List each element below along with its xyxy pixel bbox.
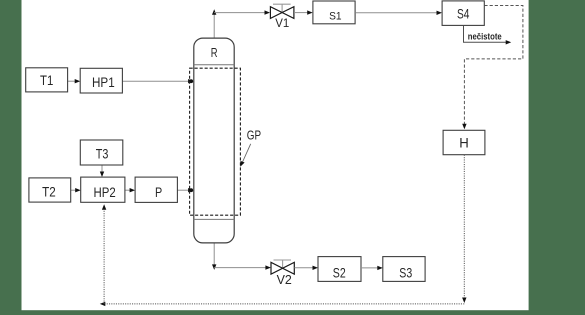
GP pointer line [240,144,250,167]
svg-text:S2: S2 [333,265,346,281]
box T2 [29,178,71,202]
box S4 [442,1,484,26]
box S1 [313,1,355,24]
wire HP1 to column R [122,79,193,83]
wire S4 impurities outlet [464,26,512,45]
box S3 [383,257,425,282]
wire V1 to S1 [294,10,313,14]
wire V2 to S2 [294,266,318,270]
svg-text:S3: S3 [399,265,412,281]
wire HP2 to P [125,188,135,192]
box HP1 [80,68,122,93]
box P [135,177,177,202]
green background bottom bar [0,310,585,315]
svg-text:V2: V2 [277,272,292,287]
svg-text:GP: GP [247,128,261,142]
wire S2 to S3 [361,266,383,270]
svg-text:T2: T2 [42,183,56,199]
wire T1 to HP1 [68,79,81,83]
valve V2 [271,260,294,274]
green background left bar [0,0,22,315]
dotted recycle up to HP2 [102,204,106,304]
box H [443,130,485,154]
valve V1 [270,4,294,18]
svg-text:S4: S4 [457,6,470,22]
svg-text:H: H [459,136,469,151]
svg-text:R: R [211,46,218,60]
column R vessel [194,38,234,243]
wire T3 to HP2 [100,165,104,177]
svg-text:S1: S1 [329,10,342,22]
svg-text:HP1: HP1 [92,74,115,90]
svg-text:HP2: HP2 [94,184,116,200]
svg-text:T1: T1 [40,72,53,88]
dotted recycle H down to bottom [462,155,466,303]
svg-text:T3: T3 [96,145,109,161]
wire column R bottom outlet to V2 [212,243,271,270]
box HP2 [81,177,125,202]
box S2 [318,257,361,282]
wire T2 to HP2 [71,188,81,192]
green background right bar [529,0,585,315]
wire P to column R [177,188,193,192]
dotted recycle bottom horizontal [100,302,465,306]
wire column R top outlet to V1 [212,9,270,38]
box T3 [80,140,123,165]
svg-text:V1: V1 [275,18,289,30]
svg-text:nečistote: nečistote [468,32,502,43]
dashed recycle S4 to H [462,6,523,130]
dashed packing zone GP [190,68,241,215]
wire S1 to S4 [355,11,442,15]
box T1 [26,68,68,92]
svg-text:P: P [155,184,162,200]
